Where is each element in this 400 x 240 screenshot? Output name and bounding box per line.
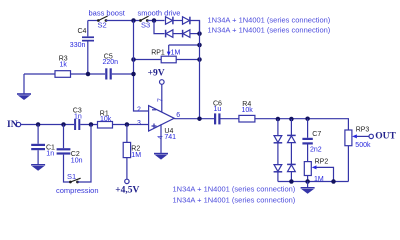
wire: top row S2 to S3: [106, 20, 141, 22]
wire: column A upper: [277, 119, 279, 136]
potentiometer RP2: [304, 162, 333, 182]
svg-text:1M: 1M: [171, 49, 181, 56]
junction: S1 riser / input row: [89, 122, 94, 127]
switch S2: [97, 16, 108, 22]
junction: C2 / input row: [61, 122, 66, 127]
junction: wiper wire / right rail: [197, 43, 202, 48]
wire: C3 to R1: [80, 124, 97, 126]
junction: bottom diode row / right rail: [197, 31, 202, 36]
resistor R2: [123, 125, 130, 180]
potentiometer RP1: [161, 45, 176, 63]
resistor R4: [239, 115, 349, 130]
diode D8: [287, 164, 296, 171]
ground at R3: [17, 74, 31, 100]
capacitor C7: [302, 119, 312, 162]
bottom row of output network: [278, 181, 349, 183]
svg-text:10k: 10k: [100, 116, 112, 123]
svg-text:OUT: OUT: [375, 132, 396, 142]
svg-text:500k: 500k: [355, 142, 371, 149]
svg-text:7: 7: [158, 98, 165, 102]
junction: RP1 right / right rail: [197, 57, 202, 62]
diode D6: [287, 135, 296, 142]
svg-text:741: 741: [164, 134, 176, 141]
svg-text:bass boost: bass boost: [89, 8, 126, 17]
svg-text:+9V: +9V: [148, 69, 165, 79]
diode D4: [183, 30, 190, 38]
resistor R3: [24, 71, 105, 78]
svg-text:3: 3: [137, 120, 141, 127]
right feedback rail: [199, 21, 201, 119]
junction: diode network left node: [152, 18, 157, 23]
svg-text:compression: compression: [56, 186, 99, 195]
junction: C1 / input row: [36, 122, 41, 127]
op-amp U4: [149, 106, 175, 131]
junction: top row / left rail: [131, 18, 136, 23]
svg-text:RP2: RP2: [315, 159, 329, 166]
svg-text:S3: S3: [141, 21, 150, 30]
wire: input row IN to C3: [21, 124, 74, 126]
switch S3: [139, 16, 149, 22]
wire: column A lower: [277, 172, 279, 182]
svg-text:S2: S2: [98, 21, 107, 30]
wire: column B upper: [290, 119, 292, 135]
junction: R2 / input row: [125, 122, 129, 127]
wire: D4 to right rail: [190, 33, 200, 35]
terminal OUT: [369, 134, 373, 138]
wire: column B lower: [290, 172, 292, 182]
svg-text:1N34A + 1N4001 (series connect: 1N34A + 1N4001 (series connection): [173, 195, 296, 204]
diode D3: [166, 30, 173, 38]
wire: top row from C4 corner to switch S2: [88, 20, 99, 22]
svg-text:10n: 10n: [71, 157, 83, 164]
potentiometer RP3: [345, 130, 369, 182]
wire: column A middle: [277, 143, 279, 165]
svg-text:C7: C7: [312, 131, 321, 138]
junction: RP2 wiper / bottom row: [331, 179, 336, 184]
svg-text:1N34A + 1N4001 (series connect: 1N34A + 1N4001 (series connection): [173, 185, 296, 194]
wire: RP1 right to right rail: [176, 59, 199, 61]
junction: output row / diode column B: [289, 117, 294, 122]
junction: output / right rail: [197, 116, 202, 121]
svg-text:1n: 1n: [46, 151, 54, 158]
svg-text:1M: 1M: [314, 176, 324, 183]
svg-text:S1: S1: [67, 172, 76, 181]
svg-text:1N34A + 1N4001 (series connect: 1N34A + 1N4001 (series connection): [208, 16, 331, 25]
svg-text:10k: 10k: [242, 107, 254, 114]
wire: S1 to input row riser: [78, 125, 92, 183]
wire: diode network left vertical: [154, 21, 165, 34]
wire: column B middle: [290, 143, 292, 165]
terminal IN: [16, 122, 20, 126]
switch S1: [69, 178, 81, 183]
svg-text:2n2: 2n2: [310, 147, 322, 154]
wire: op-amp output to C6: [174, 118, 214, 120]
ground at C1: [31, 165, 45, 171]
capacitor C5: [105, 68, 133, 79]
svg-text:+4,5V: +4,5V: [115, 185, 139, 195]
junction: column B / bottom row: [289, 179, 294, 184]
wire: RP1 wiper to right rail: [169, 44, 200, 46]
junction: RP1 left / left rail: [131, 57, 136, 62]
svg-text:C4: C4: [78, 28, 87, 35]
capacitor C3: [74, 119, 80, 130]
svg-text:1M: 1M: [131, 152, 141, 159]
wire: RP1 left to rail: [134, 59, 162, 61]
diode D1: [166, 17, 173, 25]
svg-text:RP3: RP3: [356, 126, 370, 133]
resistor R1: [98, 122, 149, 129]
diode D7: [274, 165, 283, 172]
junction: output row / diode column A: [276, 117, 281, 122]
svg-text:2: 2: [137, 107, 141, 114]
junction: ground / bottom row: [305, 179, 310, 184]
svg-text:1N34A + 1N4001 (series connect: 1N34A + 1N4001 (series connection): [208, 25, 331, 34]
svg-text:1k: 1k: [60, 62, 68, 69]
wire: D2 to right rail corner: [190, 21, 200, 34]
junction: C5 / left rail: [131, 72, 136, 77]
capacitor C6: [214, 113, 239, 124]
diode D2: [183, 17, 190, 25]
junction: output row / C7 column: [305, 116, 310, 121]
svg-text:1u: 1u: [214, 106, 222, 113]
wire: between D1 and D2: [173, 20, 183, 22]
diode D5: [274, 136, 283, 143]
wire: between D3 and D4: [173, 33, 183, 35]
svg-text:6: 6: [176, 112, 180, 119]
supply terminal +4,5V: [125, 179, 129, 183]
ground at output network: [301, 182, 315, 194]
junction: C4 / R3C5 row: [86, 72, 91, 77]
left feedback rail: [134, 21, 149, 112]
capacitor C4: [82, 21, 94, 75]
svg-text:RP1: RP1: [151, 49, 165, 56]
svg-text:1n: 1n: [74, 113, 82, 120]
ground at op-amp pin 4: [154, 124, 168, 159]
svg-text:IN: IN: [7, 120, 18, 130]
wire: top row S3 to diode network: [147, 20, 164, 22]
svg-text:smooth drive: smooth drive: [138, 8, 181, 17]
svg-text:330n: 330n: [70, 42, 86, 49]
capacitor C1: [31, 125, 45, 165]
capacitor C2: [57, 125, 71, 183]
supply terminal +9V: [160, 80, 165, 112]
svg-text:220n: 220n: [103, 59, 119, 66]
